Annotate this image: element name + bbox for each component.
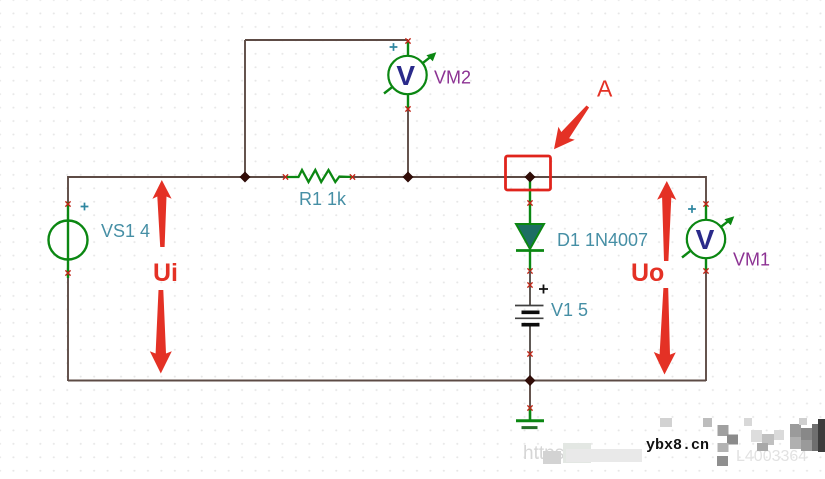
diode D1: [516, 178, 544, 274]
annotation Ui down arrow: [150, 290, 172, 374]
wire VM2 branch horizontal top: [245, 39, 408, 41]
annotation Uo up arrow: [657, 181, 676, 261]
battery V1: [515, 282, 544, 356]
wire bottom main: [68, 380, 706, 382]
wire right vertical above VM1: [705, 176, 707, 204]
annotation Uo down arrow: [654, 288, 676, 375]
svg-text:L4003364: L4003364: [736, 448, 807, 465]
svg-text:VM2: VM2: [434, 68, 471, 88]
svg-text:A: A: [597, 76, 613, 102]
wire diode to battery: [529, 271, 531, 305]
annotation red square around node A: [506, 156, 551, 190]
annotation arrow to node A: [554, 106, 589, 150]
svg-text:V1 5: V1 5: [551, 300, 588, 320]
annotation Ui up arrow: [152, 180, 171, 247]
plus sign VS1: [81, 203, 89, 211]
plus sign battery: [539, 285, 548, 294]
node junction at VM2 bottom: [403, 172, 413, 182]
resistor R1: [283, 170, 355, 182]
plus sign VM1: [688, 205, 696, 213]
wire top main right segment: [340, 176, 706, 178]
wire left vertical below VS1: [67, 273, 69, 381]
node junction bottom ground: [525, 376, 535, 386]
mosaic blur blocks: [543, 418, 825, 466]
voltage source VS1: [49, 201, 88, 278]
node junction at VM2 branch left: [240, 172, 250, 182]
wire VM2 bottom lead down to main wire: [407, 109, 409, 177]
svg-text:Ui: Ui: [153, 259, 178, 287]
plus sign VM2: [390, 43, 398, 51]
svg-text:VS1 4: VS1 4: [101, 221, 150, 241]
voltmeter VM1: [682, 201, 734, 273]
wire left vertical above VS1: [67, 176, 69, 204]
svg-text:V: V: [696, 224, 715, 255]
node A junction: [525, 172, 535, 182]
wire ground branch: [529, 381, 531, 408]
svg-text:R1 1k: R1 1k: [299, 189, 347, 209]
wire right vertical below VM1: [705, 271, 707, 381]
svg-text:D1 1N4007: D1 1N4007: [557, 230, 648, 250]
wire top main left segment: [68, 176, 299, 178]
svg-text:ybx8.cn: ybx8.cn: [646, 437, 709, 454]
svg-text:V: V: [396, 60, 415, 91]
svg-text:VM1: VM1: [733, 250, 770, 270]
ground: [516, 405, 544, 427]
svg-text:Uo: Uo: [631, 259, 664, 287]
voltmeter VM2: [384, 38, 436, 111]
wire VM2 branch vertical up from node: [244, 40, 246, 177]
wire battery to bottom wire: [529, 326, 531, 381]
